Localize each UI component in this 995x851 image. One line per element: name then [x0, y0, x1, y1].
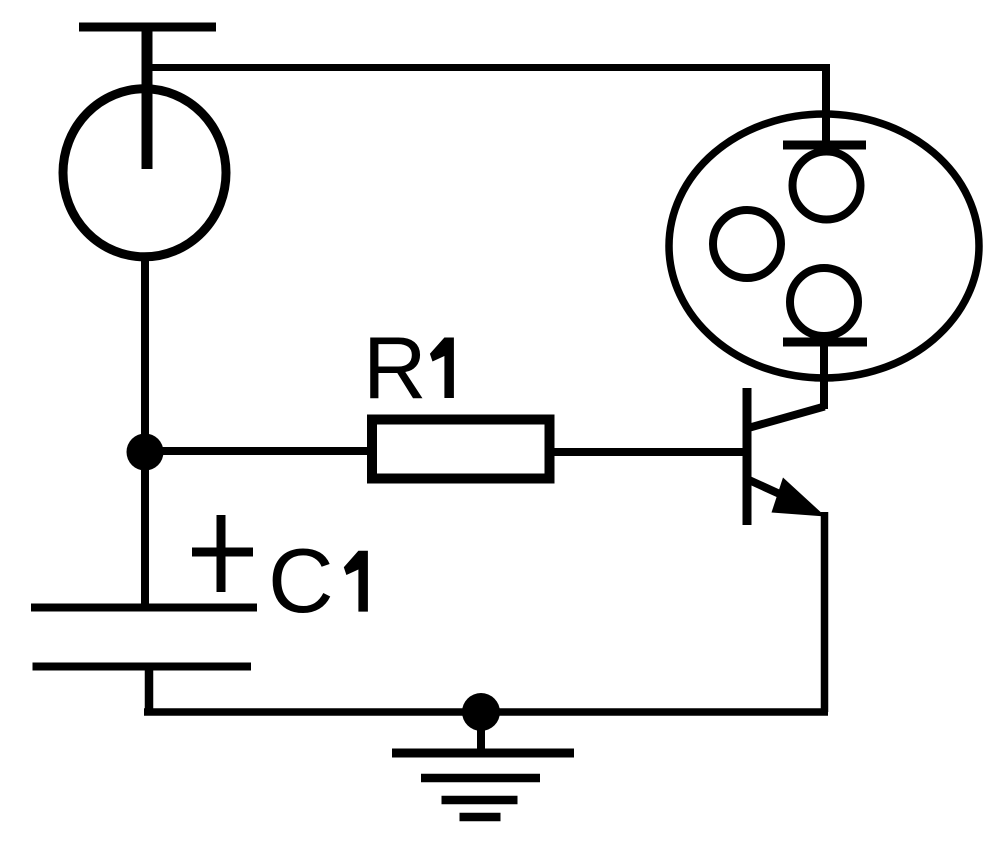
transistor Q1 collector lead diagonal: [750, 407, 825, 428]
ground stub: [477, 712, 485, 753]
svg-text:C: C: [268, 531, 334, 632]
lamp HL element circle top: [793, 152, 861, 220]
wire bottom rail: [144, 708, 828, 716]
wire emitter down to bottom rail: [821, 512, 829, 712]
wire node A down to capacitor C1: [141, 452, 149, 607]
microphone BM body circle: [63, 89, 226, 257]
lamp HL outer envelope ellipse: [669, 114, 979, 378]
wire resistor R1 to transistor base: [553, 448, 749, 456]
wire left vertical microphone to node A: [141, 256, 149, 452]
wire lamp top lead: [822, 64, 830, 149]
node B junction dot at ground tap: [462, 693, 500, 731]
capacitor C1 bottom plate: [33, 663, 252, 671]
microphone BM center post: [142, 23, 153, 169]
wire capacitor bottom lead: [145, 666, 154, 712]
lamp HL top electrode bar: [783, 141, 866, 150]
svg-text:R: R: [363, 318, 427, 417]
capacitor C1 top plate: [31, 604, 257, 612]
node A junction dot: [127, 434, 164, 471]
transistor Q1 emitter lead with arrow: [749, 478, 826, 517]
capacitor C1 plus polarity mark: [192, 515, 253, 592]
lamp HL bottom electrode bar: [783, 338, 867, 347]
wire node A to resistor R1: [145, 447, 372, 455]
transistor Q1 base bar: [743, 388, 752, 525]
resistor R1 body: [372, 420, 550, 479]
microphone BM terminal bar: [79, 23, 216, 32]
ground symbol: [392, 753, 574, 817]
wire top horizontal from microphone to lamp: [150, 64, 830, 71]
lamp HL element circle left: [713, 210, 781, 278]
wire lamp bottom lead down to collector: [820, 342, 828, 409]
lamp HL element circle bottom: [790, 268, 858, 336]
